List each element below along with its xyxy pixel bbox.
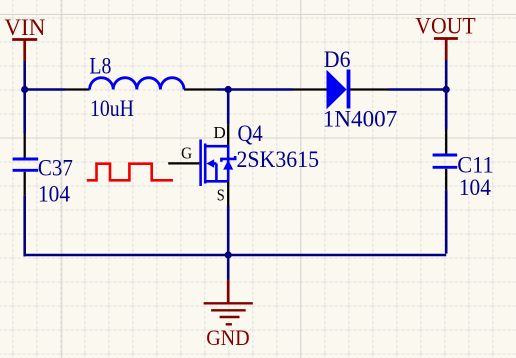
svg-text:104: 104 — [459, 175, 491, 200]
svg-text:1N4007: 1N4007 — [323, 106, 398, 131]
svg-text:D: D — [213, 123, 225, 142]
svg-text:C11: C11 — [457, 152, 494, 177]
svg-text:VOUT: VOUT — [415, 14, 475, 39]
svg-text:D6: D6 — [324, 47, 351, 72]
svg-text:10uH: 10uH — [90, 96, 134, 121]
svg-text:S: S — [217, 185, 225, 204]
svg-text:104: 104 — [38, 182, 70, 207]
svg-text:G: G — [181, 144, 192, 163]
svg-text:Q4: Q4 — [238, 121, 264, 146]
svg-text:VIN: VIN — [4, 15, 45, 40]
svg-text:C37: C37 — [38, 155, 73, 180]
svg-text:2SK3615: 2SK3615 — [237, 147, 320, 172]
svg-text:GND: GND — [206, 325, 250, 350]
svg-text:L8: L8 — [89, 54, 111, 79]
